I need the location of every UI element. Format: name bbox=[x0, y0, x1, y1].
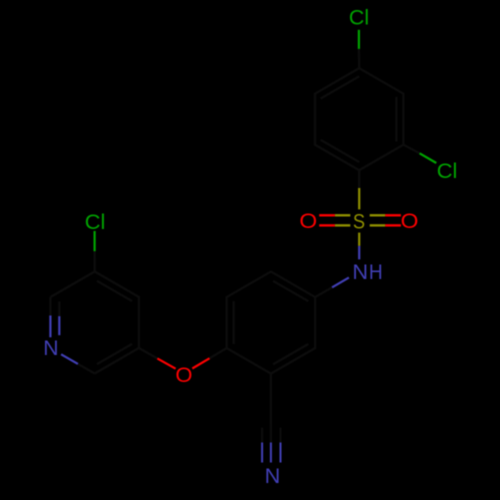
bond C4-Cl top carbon half bbox=[358, 49, 361, 68]
svg-text:O: O bbox=[299, 210, 317, 233]
bond C1-S sulfur half bbox=[358, 188, 360, 209]
bond S-N sulfur half bbox=[358, 233, 360, 246]
bond ringC-Cl chlorine half bbox=[93, 231, 95, 251]
bond ringC-Cl carbon half bbox=[93, 251, 95, 271]
svg-text:N: N bbox=[265, 465, 281, 488]
bond ringB-O ether carbon half bbox=[210, 348, 227, 358]
ring B (central benzene) carbon skeleton bbox=[227, 272, 315, 374]
bond S-N nitrogen half bbox=[358, 246, 360, 260]
svg-text:H: H bbox=[369, 261, 383, 284]
bond ringB-CN stem bbox=[270, 374, 272, 425]
double bond S=O right, sulfur halves bbox=[370, 215, 386, 225]
bond O ether-ringC oxygen half bbox=[157, 358, 175, 368]
bond N-ringB nitrogen half bbox=[332, 278, 349, 288]
ring A (dichlorophenyl) carbon skeleton bbox=[315, 68, 403, 170]
svg-text:N: N bbox=[352, 261, 368, 284]
double bond N=C pyridine, nitrogen half inner line bbox=[58, 316, 60, 335]
double bond N=C pyridine, nitrogen half main line bbox=[49, 316, 51, 338]
double bond S=O left, oxygen halves bbox=[319, 215, 335, 225]
bond C1-S carbon half bbox=[358, 170, 360, 189]
svg-text:Cl: Cl bbox=[349, 7, 369, 30]
bond N-ringB carbon half bbox=[315, 287, 332, 297]
bond C2-Cl right carbon half bbox=[403, 145, 419, 154]
bond ringB-O ether oxygen half bbox=[192, 358, 209, 368]
svg-text:O: O bbox=[175, 364, 192, 387]
bond C2-Cl right chlorine half bbox=[420, 153, 437, 163]
bond O ether-ringC carbon half bbox=[139, 348, 157, 358]
svg-text:O: O bbox=[401, 210, 419, 233]
bond N-C2 pyridine nitrogen half bbox=[61, 354, 78, 364]
double bond S=O right, oxygen halves bbox=[385, 215, 401, 225]
bond C4-Cl top chlorine half bbox=[358, 30, 360, 49]
svg-text:S: S bbox=[353, 210, 365, 233]
triple bond C#N carbon halves bbox=[262, 425, 280, 443]
triple bond C#N nitrogen halves bbox=[262, 443, 280, 463]
svg-text:N: N bbox=[43, 337, 58, 360]
svg-text:Cl: Cl bbox=[85, 211, 106, 234]
svg-text:Cl: Cl bbox=[437, 160, 458, 183]
double bond S=O left, sulfur halves bbox=[335, 215, 351, 225]
ring C (pyridine) carbon skeleton bbox=[50, 272, 138, 374]
